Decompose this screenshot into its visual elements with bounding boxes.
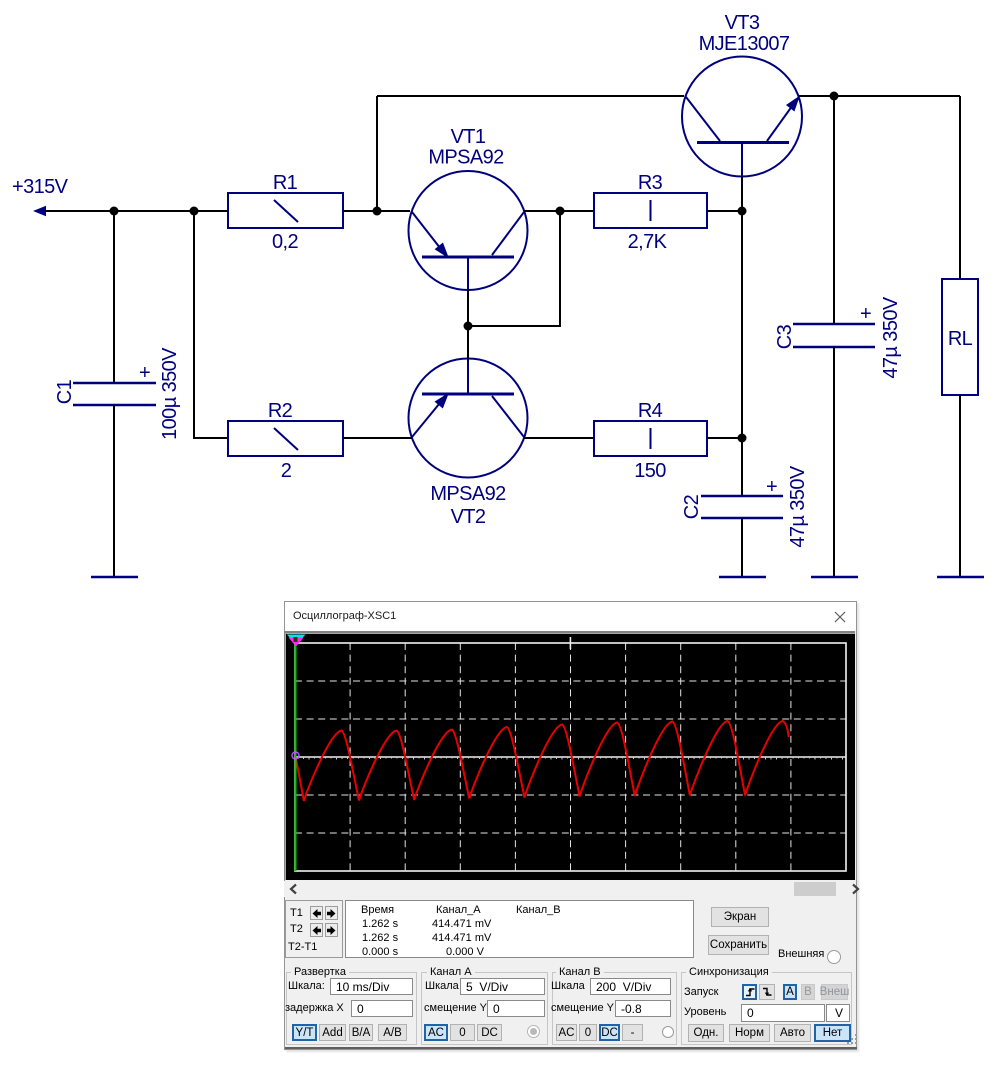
svg-text:+: + <box>766 476 777 498</box>
svg-text:VT3: VT3 <box>725 12 760 34</box>
svg-text:R3: R3 <box>638 172 663 194</box>
scope grid <box>295 643 846 871</box>
wire base node to collector node <box>468 211 560 326</box>
svg-text:47µ 350V: 47µ 350V <box>880 296 902 378</box>
resistor R2 2 <box>228 400 343 482</box>
wire R1 to VT1 <box>343 210 410 212</box>
group Канал B <box>552 972 677 1045</box>
wire VT3 base lead <box>741 176 743 211</box>
ground for C3 <box>811 576 858 579</box>
wire vertical to R2 row <box>194 211 228 438</box>
node junction at C1 tap <box>110 207 119 216</box>
node junction R3 / VT3 base <box>738 207 747 216</box>
svg-text:2,7K: 2,7K <box>628 231 668 253</box>
wire VT3 base node down to R4 node <box>741 211 743 438</box>
group Синхронизация <box>681 972 852 1045</box>
svg-text:VT2: VT2 <box>451 506 486 528</box>
group Канал A <box>421 972 548 1045</box>
resistor R3 2,7K <box>594 172 707 253</box>
transistor VT3 MJE13007 (NPN) <box>682 12 802 177</box>
capacitor C1 100u 350V <box>54 347 181 440</box>
svg-text:100µ 350V: 100µ 350V <box>159 347 181 440</box>
svg-text:MPSA92: MPSA92 <box>430 483 506 505</box>
resistor R1 0,2 <box>228 172 343 253</box>
scope display <box>284 631 855 880</box>
channel B waveform <box>296 721 789 801</box>
oscilloscope window XSC1 <box>284 601 857 1050</box>
svg-text:150: 150 <box>634 460 666 482</box>
power arrow terminal <box>33 206 46 216</box>
node junction VT1 collector / R3 <box>556 207 565 216</box>
wire VT1 collector to R3 <box>524 210 594 212</box>
wire top rail right <box>799 95 960 97</box>
svg-text:47µ 350V: 47µ 350V <box>787 465 809 547</box>
capacitor C3 47u 350V <box>774 296 902 378</box>
wire VT1 base lead <box>467 290 469 326</box>
svg-text:R4: R4 <box>638 400 663 422</box>
svg-text:+315V: +315V <box>12 176 69 198</box>
ground for C1 <box>91 576 138 579</box>
svg-text:0,2: 0,2 <box>272 231 298 253</box>
svg-text:RL: RL <box>948 328 973 350</box>
wire C2 top lead <box>741 438 743 496</box>
wire RL bottom lead <box>959 395 961 577</box>
wire top rail left <box>377 95 684 97</box>
wire RL top lead <box>959 96 961 279</box>
wire C3 top lead <box>833 96 835 324</box>
svg-text:MJE13007: MJE13007 <box>699 33 790 55</box>
node junction R4 / C2 <box>738 434 747 443</box>
cursor T1 line <box>295 643 297 871</box>
svg-text:+: + <box>860 303 871 325</box>
group Развертка <box>286 972 417 1045</box>
resize grip <box>847 1033 858 1045</box>
cursor handles <box>287 635 306 647</box>
title bar <box>285 602 856 631</box>
svg-text:+: + <box>139 362 150 384</box>
node junction VT1/VT2 bases <box>464 322 473 331</box>
transistor VT2 MPSA92 (PNP, mirrored) <box>409 359 528 529</box>
wire main row left <box>45 210 228 212</box>
wire C3 bottom lead <box>833 347 835 577</box>
wire R3 to base node of VT3 <box>707 210 742 212</box>
power rail label +315V <box>12 176 69 198</box>
svg-text:R2: R2 <box>268 400 293 422</box>
svg-text:2: 2 <box>281 460 292 482</box>
transistor VT1 MPSA92 (PNP) <box>409 126 528 291</box>
node junction at R2 tap <box>190 207 199 216</box>
wire C2 bottom lead <box>741 518 743 577</box>
channel marker circle <box>292 752 299 759</box>
wire C1 top lead <box>113 211 115 383</box>
node junction top rail / C3 <box>830 92 839 101</box>
measurement readout box <box>345 900 694 958</box>
trigger position tick <box>570 637 572 649</box>
resistor RL (load) <box>942 279 978 395</box>
wire R2 to VT2 <box>343 437 412 439</box>
cursor readout panel T1/T2 <box>285 900 343 958</box>
capacitor C2 47u 350V <box>681 465 809 547</box>
svg-text:R1: R1 <box>273 172 298 194</box>
svg-text:C3: C3 <box>774 324 796 349</box>
channel A trace (axis line with noise) <box>295 757 846 760</box>
screen / save buttons <box>711 907 769 927</box>
wire vertical to top rail <box>376 96 378 211</box>
resistor R4 150 <box>594 400 707 482</box>
wire VT2 base lead <box>467 326 469 361</box>
node junction VT1 emitter / top rail <box>373 207 382 216</box>
svg-text:MPSA92: MPSA92 <box>428 147 504 169</box>
svg-text:C2: C2 <box>681 494 703 519</box>
svg-text:VT1: VT1 <box>451 126 486 148</box>
wire C1 bottom lead <box>113 405 115 577</box>
wire R4 to node <box>707 437 742 439</box>
wire VT2 to R4 <box>524 437 594 439</box>
close button <box>833 610 847 624</box>
ground for C2 <box>719 576 766 579</box>
svg-text:C1: C1 <box>54 379 76 404</box>
ground for RL <box>937 576 984 579</box>
scrollbar <box>284 881 855 897</box>
